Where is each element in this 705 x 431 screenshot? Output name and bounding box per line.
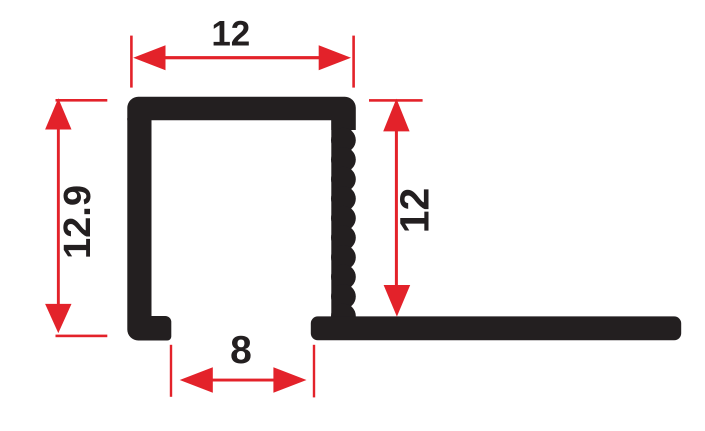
dimension 12 right: top extension line xyxy=(369,99,423,102)
dimension 8 bottom: right extension line xyxy=(313,345,315,398)
profile top bar xyxy=(127,97,355,130)
profile right wall xyxy=(331,118,351,340)
svg-text:12: 12 xyxy=(211,15,250,54)
profile right wall serrations xyxy=(331,128,356,329)
dimension 12.9 left: shaft xyxy=(57,125,60,308)
dimension 12 right: shaft xyxy=(395,128,398,288)
dimension 8 bottom: shaft xyxy=(210,379,276,382)
dimension 8 bottom: left extension line xyxy=(170,345,172,397)
dimension 12 right: down arrowhead xyxy=(384,285,411,317)
dimension 8 bottom: left arrowhead xyxy=(180,367,213,393)
svg-text:12: 12 xyxy=(392,188,438,234)
dimension 12 top: shaft xyxy=(160,56,325,59)
dimension 12 top: right extension line xyxy=(352,36,355,88)
dimension 12 top: left extension line xyxy=(130,36,133,88)
svg-text:8: 8 xyxy=(230,329,252,372)
profile left wall with bottom foot xyxy=(127,118,171,341)
dimension 12.9 left: bottom extension line xyxy=(56,335,108,338)
dimension 12 right: up arrowhead xyxy=(383,99,409,132)
svg-text:12.9: 12.9 xyxy=(57,185,99,259)
dimension 12.9 left: up arrowhead xyxy=(45,98,71,129)
dimension 12 top: right arrowhead xyxy=(319,45,351,70)
dimension 12.9 left: down arrowhead xyxy=(45,304,71,333)
profile bottom flange xyxy=(311,316,681,340)
dimension 12 top: left arrowhead xyxy=(133,45,165,70)
dimension 12.9 left: top extension line xyxy=(56,99,108,102)
dimension 8 bottom: right arrowhead xyxy=(273,367,306,393)
